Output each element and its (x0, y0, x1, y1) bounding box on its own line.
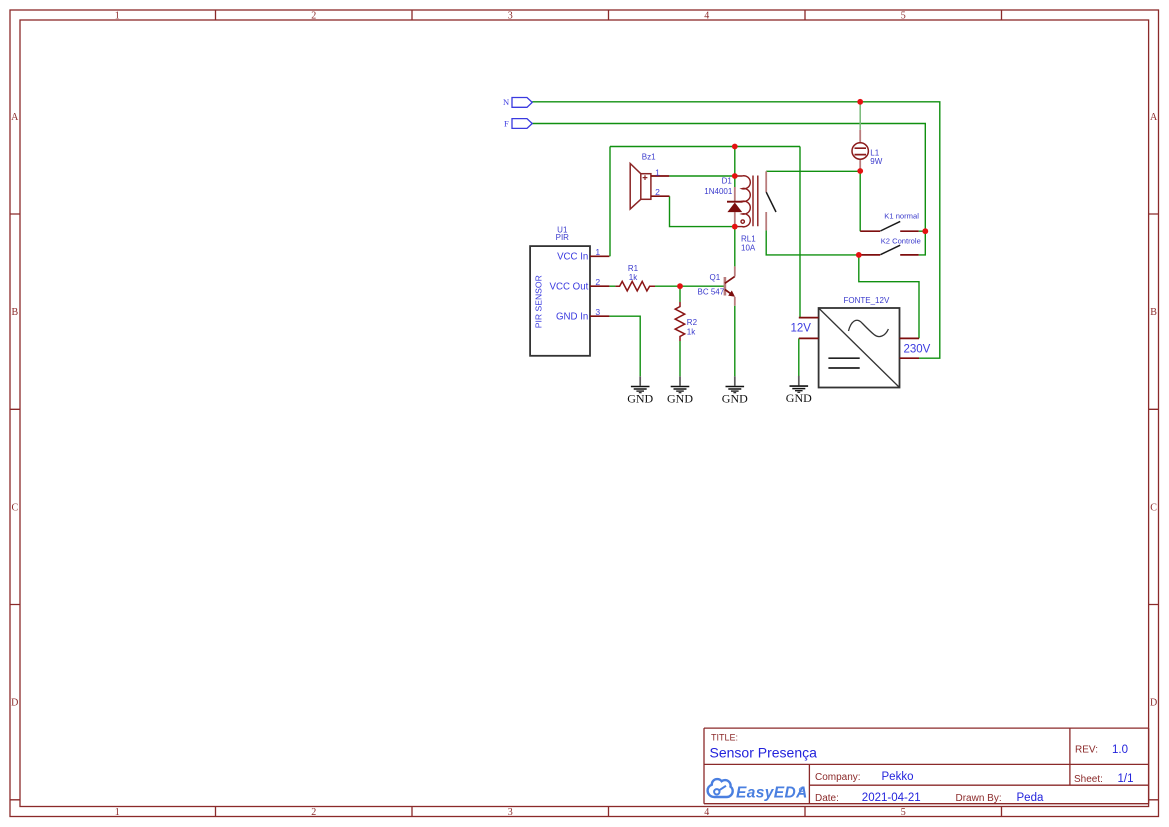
svg-text:1/1: 1/1 (1118, 773, 1134, 785)
svg-text:VCC Out: VCC Out (550, 281, 589, 292)
svg-text:BC 547: BC 547 (698, 287, 725, 296)
svg-text:5: 5 (901, 11, 906, 22)
svg-text:R1: R1 (628, 264, 639, 273)
svg-text:10A: 10A (741, 243, 756, 252)
svg-text:3: 3 (595, 307, 600, 317)
svg-text:REV:: REV: (1075, 744, 1098, 755)
svg-text:1: 1 (115, 807, 120, 818)
svg-text:R2: R2 (687, 318, 698, 327)
svg-text:Peda: Peda (1017, 792, 1044, 804)
svg-text:1: 1 (115, 11, 120, 22)
svg-text:PIR: PIR (556, 233, 570, 242)
svg-text:4: 4 (704, 11, 709, 22)
svg-text:A: A (11, 112, 19, 123)
svg-text:FONTE_12V: FONTE_12V (844, 296, 890, 305)
svg-text:1: 1 (655, 167, 660, 177)
svg-text:PIR SENSOR: PIR SENSOR (533, 275, 543, 328)
svg-text:Sensor Presença: Sensor Presença (710, 745, 818, 761)
svg-text:9W: 9W (870, 157, 882, 166)
svg-text:12V: 12V (791, 323, 812, 335)
svg-text:RL1: RL1 (741, 235, 756, 244)
svg-text:2: 2 (311, 11, 316, 22)
svg-text:F: F (504, 118, 509, 128)
svg-text:Bz1: Bz1 (642, 152, 656, 161)
svg-text:D: D (11, 698, 18, 709)
svg-text:EasyEDA: EasyEDA (736, 785, 808, 802)
svg-text:3: 3 (508, 11, 513, 22)
svg-text:C: C (11, 502, 18, 513)
svg-text:1k: 1k (629, 273, 638, 282)
svg-text:K2 Controle: K2 Controle (881, 237, 921, 246)
svg-text:1: 1 (595, 247, 600, 257)
svg-text:A: A (1150, 112, 1158, 123)
svg-text:4: 4 (704, 807, 709, 818)
svg-text:2: 2 (655, 187, 660, 197)
svg-text:Pekko: Pekko (882, 771, 914, 783)
svg-text:B: B (1150, 307, 1157, 318)
svg-text:1k: 1k (687, 328, 696, 337)
svg-text:Date:: Date: (815, 793, 839, 804)
svg-text:Drawn By:: Drawn By: (956, 793, 1002, 804)
svg-text:5: 5 (901, 807, 906, 818)
svg-text:GND In: GND In (556, 311, 588, 322)
svg-text:C: C (1150, 502, 1157, 513)
svg-text:TITLE:: TITLE: (711, 733, 738, 743)
svg-text:2: 2 (311, 807, 316, 818)
svg-text:1.0: 1.0 (1112, 744, 1128, 756)
svg-text:2021-04-21: 2021-04-21 (862, 792, 921, 804)
svg-text:3: 3 (508, 807, 513, 818)
svg-text:2: 2 (595, 277, 600, 287)
svg-text:Company:: Company: (815, 772, 861, 783)
svg-text:B: B (11, 307, 18, 318)
svg-text:Q1: Q1 (710, 273, 721, 282)
svg-text:Sheet:: Sheet: (1074, 774, 1103, 785)
svg-text:230V: 230V (904, 343, 931, 355)
svg-text:K1 normal: K1 normal (884, 211, 919, 220)
svg-text:1N4001: 1N4001 (704, 187, 733, 196)
svg-text:VCC In: VCC In (557, 252, 588, 263)
svg-text:D1: D1 (722, 177, 733, 186)
svg-text:N: N (503, 97, 509, 107)
svg-text:D: D (1150, 698, 1157, 709)
